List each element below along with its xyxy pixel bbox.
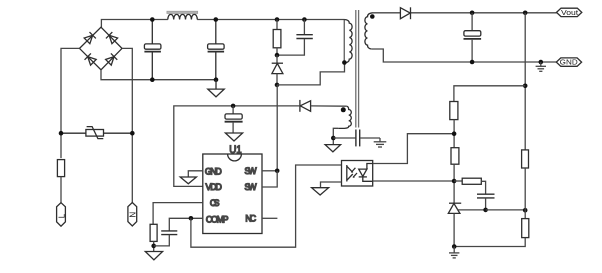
node ref-cap junction [483,208,488,213]
varistor RV1 [61,127,132,139]
node varistor-L junction [59,131,64,136]
node snubber top [275,17,280,22]
light arrows [352,168,356,172]
optocoupler U2 box [342,161,373,187]
wire primary bottom to SW node [277,63,345,85]
wire secondary top to Vout rail [373,12,401,14]
svg-text:SW: SW [245,166,258,176]
node divider top [523,11,528,16]
wire opto emitter to ground [321,182,342,188]
wire bridge bottom / lower rail [101,70,216,80]
wire opto anode to divider [373,134,454,164]
U1 pin labels [205,166,257,224]
diode (bridge top-left) [84,32,96,44]
ground (VDD cap) [225,133,242,141]
node SW junction [275,169,280,174]
node COMP feedback junction [189,216,194,221]
node CX2 bottom rail end [214,77,219,82]
node snubber cap top [302,17,307,22]
wire aux diode to winding [311,105,347,107]
wire fuse to L connector [60,177,62,203]
svg-text:GND: GND [205,167,222,177]
wire divider bottom [454,238,525,247]
wire CS pin [153,203,203,225]
resistor R-opto [450,102,458,120]
node output cap top [470,11,475,16]
diode (bridge bottom-left) [85,53,97,65]
wire top rail left [101,20,167,28]
wire top rail mid [197,19,344,21]
node GND rail earth junction [539,60,544,65]
capacitor CX1 [144,20,161,80]
wire COMP cap bottom [154,235,170,246]
svg-text:VDD: VDD [206,182,222,192]
shunt regulator TL431 [448,203,461,246]
resistor R-comp [454,178,486,194]
node aux ground junction [331,136,336,141]
wire CS resistor bottom [153,241,155,251]
wire VDD line [174,106,300,186]
wire C-comp bottom [485,198,487,210]
node SW-primary junction [275,83,280,88]
node primary dot [342,60,347,65]
svg-text:NC: NC [245,214,256,224]
capacitor C-COMP [161,231,177,235]
resistor R-div-lower [522,219,529,238]
node TL431 cathode junction [452,179,457,184]
wire secondary bottom to GND rail [371,49,557,62]
wire opto cathode [373,180,454,182]
diode D-out [400,7,410,19]
svg-text:L: L [57,213,66,218]
capacitor CX2 [208,20,225,80]
svg-text:SW: SW [245,182,258,192]
ground (U1 GND pin) [180,177,196,184]
svg-text:U1: U1 [229,144,242,156]
resistor R-div-upper [522,150,529,168]
node snubber RC junction [275,53,280,58]
label GND [556,58,581,67]
resistor R-bias [451,148,459,165]
wire TL431 ref [457,209,485,211]
wire GND pin [188,171,203,177]
transistor (opto detector) [346,165,348,182]
transformer aux winding [338,106,351,128]
wire SW pin 1 [262,170,277,172]
wire divider mid [524,168,526,219]
node output cap bottom [470,60,475,65]
svg-text:CS: CS [210,198,220,208]
LED (opto emitter) [367,164,373,170]
transformer T1 core [356,10,359,128]
wire divider column [524,13,526,150]
node CX2 top [214,17,219,22]
wire Y-cap to earth [360,137,380,139]
wire bridge right to N column [122,48,132,203]
label Vout [557,8,582,17]
resistor R-CS [150,224,157,241]
wire R-opto bottom [453,120,455,148]
wire ref to divider mid [486,209,526,211]
connector L [57,203,67,227]
transformer secondary winding [365,13,373,49]
resistor R-snubber [273,20,281,56]
wire SW pin 2 [262,171,277,187]
diode (bridge bottom-right) [105,53,117,65]
node CX1 top [150,17,155,22]
node opto anode junction [452,131,457,136]
wire aux node to Y-cap [333,137,355,139]
earth ground (TL431) [449,247,459,258]
capacitor C-out [464,13,482,62]
capacitor CY1 [356,130,360,147]
wire divider to TL431 column [454,86,525,102]
wire Vout rail [411,12,558,14]
capacitor C-VDD [225,106,243,133]
ground (input rail) [208,80,224,97]
node CX1 bottom [150,77,155,82]
fuse F1 [57,160,64,177]
earth ground (Y-cap) [374,138,387,147]
node TL431 anode junction [452,244,457,249]
wire COMP pin [169,218,203,231]
diode (bridge top-right) [106,32,118,44]
op-amp U1 box [203,154,262,234]
capacitor C-snubber [277,20,313,56]
node divider mid-top junction [523,84,528,89]
inductor L1 [167,11,198,19]
bridge rectifier BR1 [80,27,123,70]
wire SW net vertical [276,85,278,171]
connector N [128,203,137,227]
node aux dot [341,107,346,112]
node VDD cap junction [231,104,236,109]
wire feedback COMP to opto [191,165,342,247]
capacitor C-comp [477,194,495,198]
ground (CS RC) [145,252,162,260]
ground (aux winding) [325,145,341,152]
wire bridge left to L column [61,48,80,158]
svg-text:Vout: Vout [561,8,578,17]
diode D-aux (VDD rectifier) [300,100,311,112]
wire NC stub [262,217,277,219]
svg-text:GND: GND [560,58,579,67]
node varistor-N junction [130,131,135,136]
transformer primary winding [344,20,352,65]
node CS RC junction [151,244,156,249]
diode D-snubber [272,55,283,85]
node divider mid junction [523,208,528,213]
svg-text:COMP: COMP [206,214,229,224]
earth ground (output GND) [536,62,546,71]
ground (opto emitter) [312,188,329,195]
node secondary dot [370,14,375,19]
wire aux bottom [333,128,338,144]
svg-text:N: N [128,212,137,218]
wire R-bias bottom [453,164,455,203]
